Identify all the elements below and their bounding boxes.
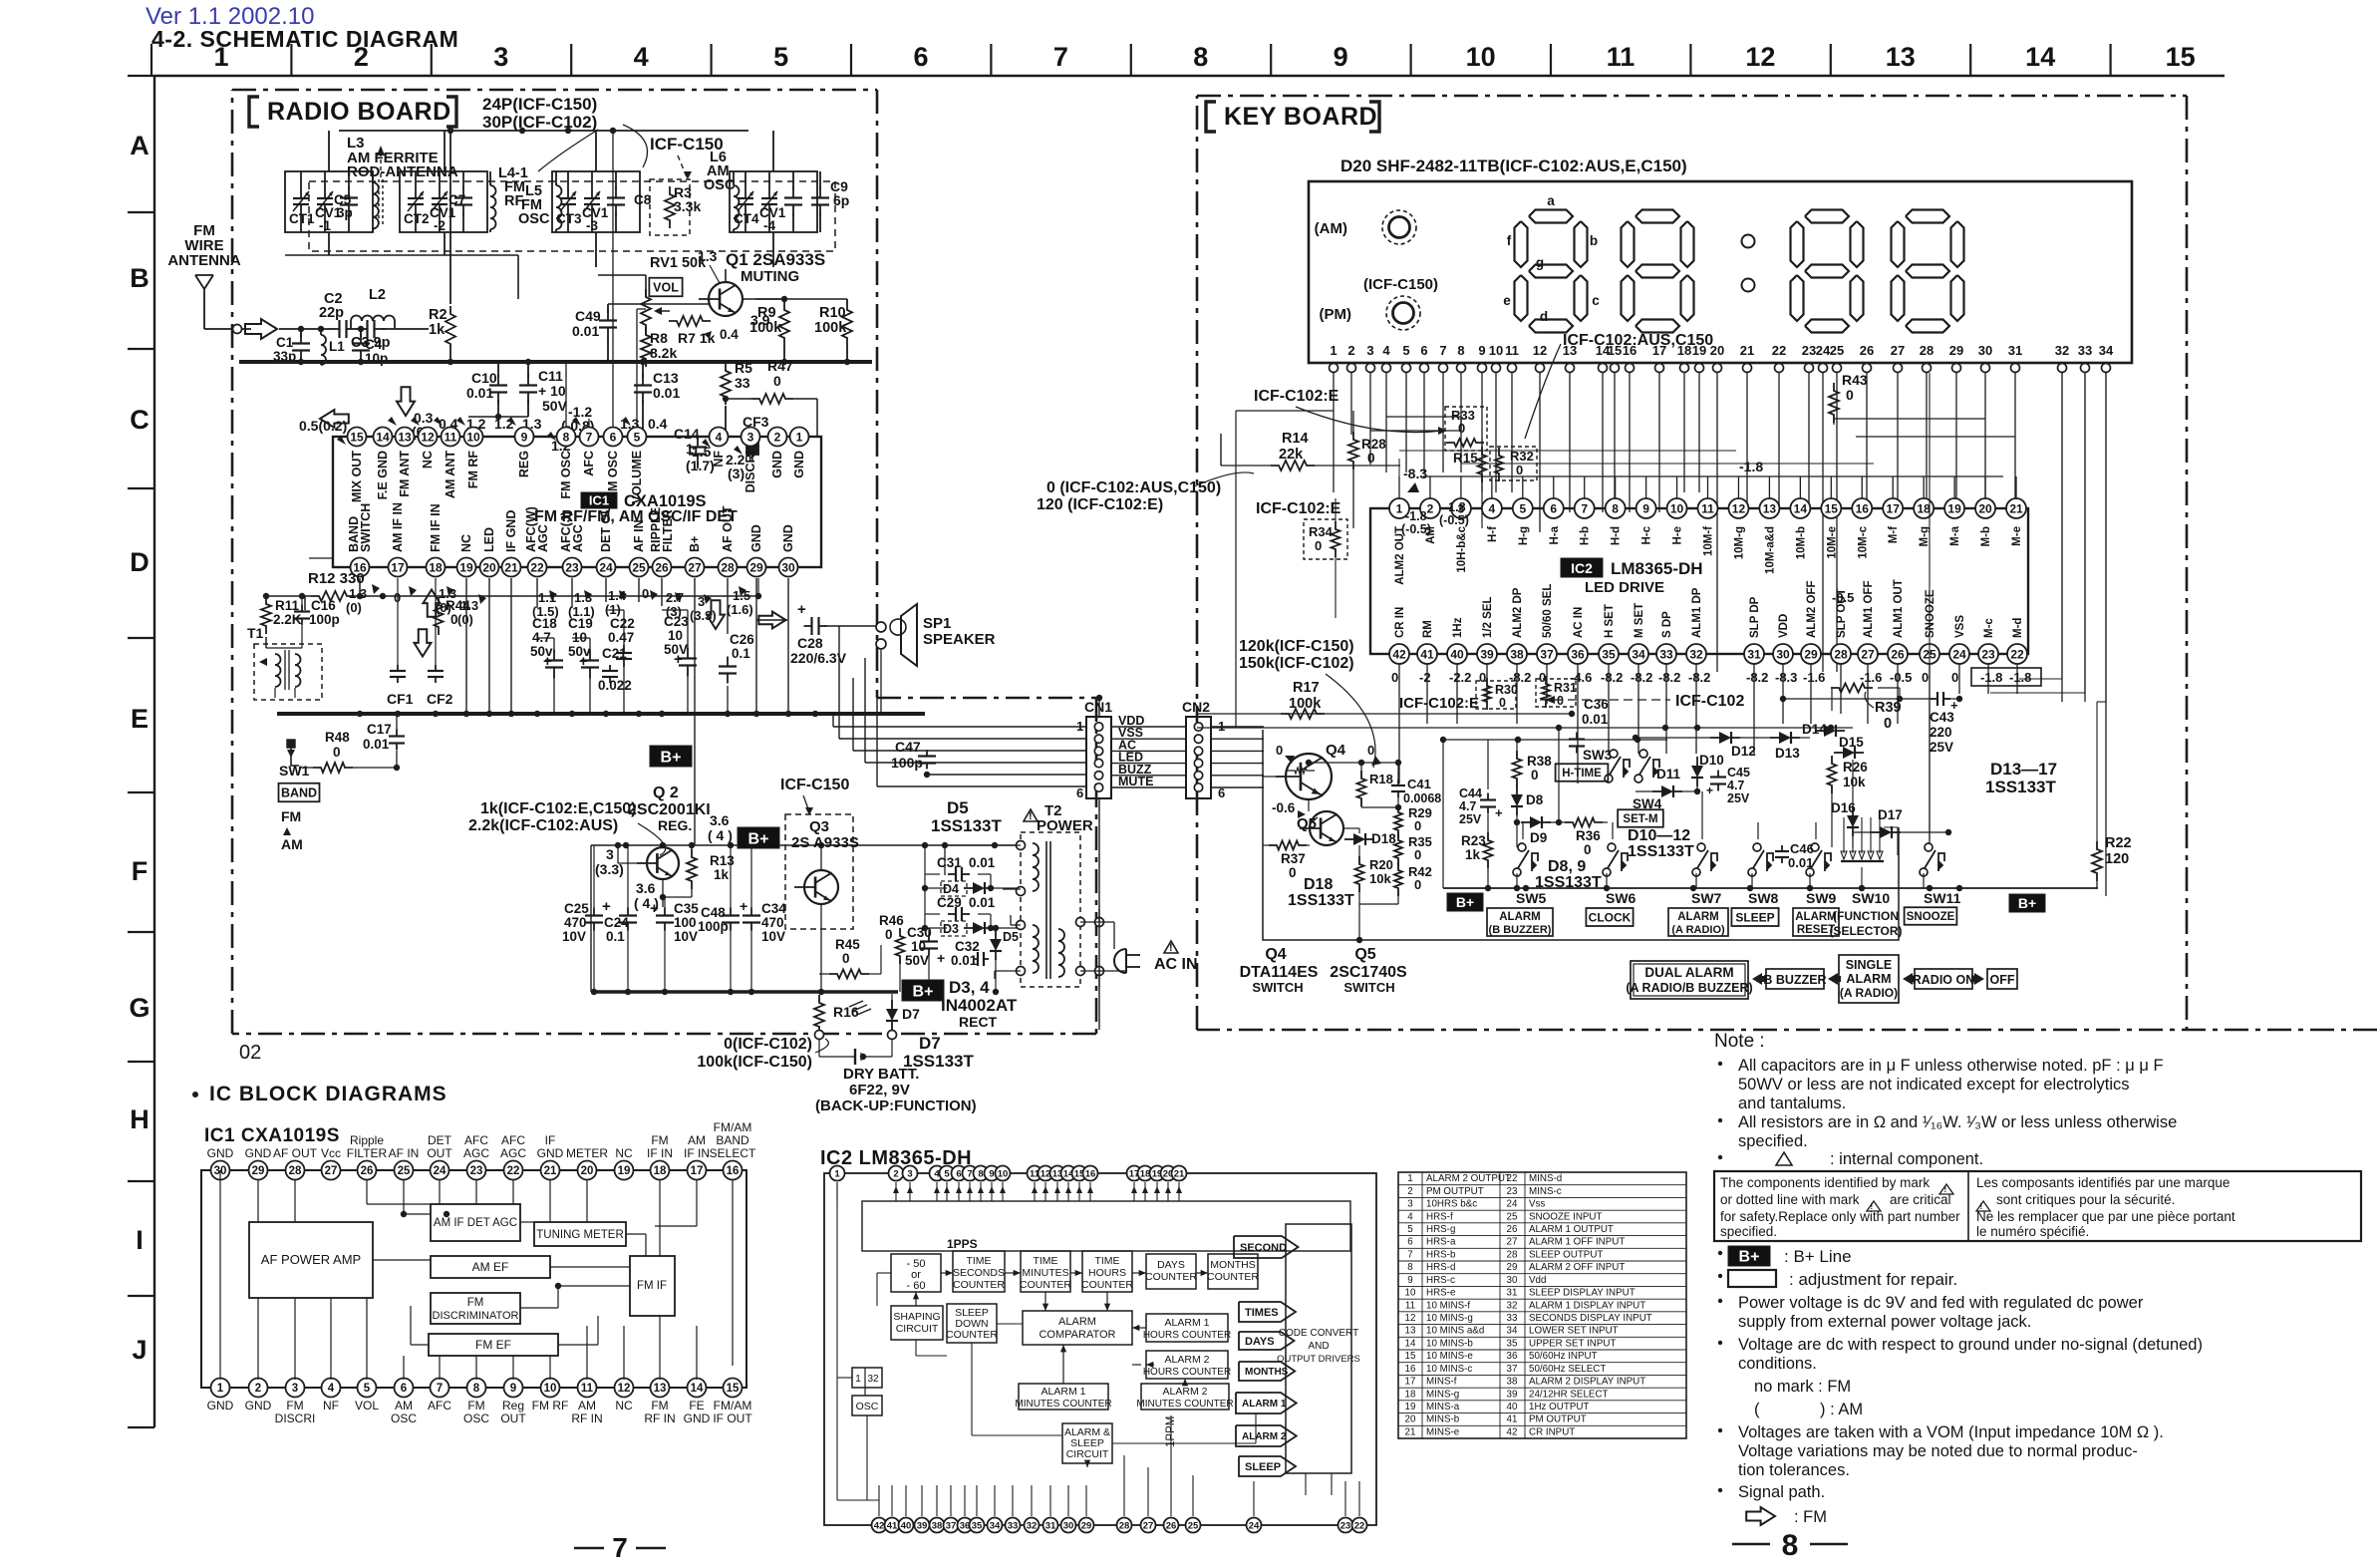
svg-text:no mark : FM: no mark : FM (1754, 1378, 1851, 1396)
svg-text:MINUTES COUNTER: MINUTES COUNTER (1136, 1399, 1233, 1410)
svg-text:e: e (1503, 293, 1511, 308)
svg-text:0: 0 (1531, 768, 1539, 783)
svg-text:C49: C49 (575, 308, 601, 324)
svg-text:50/60Hz SELECT: 50/60Hz SELECT (1529, 1364, 1606, 1375)
IC2 block pin 26 (1164, 1518, 1179, 1533)
svg-text:18: 18 (1917, 501, 1931, 515)
svg-text:L1: L1 (329, 339, 345, 354)
svg-text:470: 470 (564, 915, 587, 930)
svg-text:32: 32 (1507, 1300, 1518, 1311)
IC2 block pin 22 (1352, 1518, 1367, 1533)
svg-text:AM ANT: AM ANT (444, 451, 457, 499)
svg-text:H-c: H-c (1641, 525, 1653, 544)
svg-text:27: 27 (1861, 647, 1875, 661)
block SHAPING CIRCUIT (891, 1306, 943, 1340)
junction switch bus (1747, 885, 1753, 891)
grid column tick (1550, 44, 1552, 76)
svg-text:26: 26 (655, 560, 669, 574)
svg-text:S DP: S DP (1661, 611, 1673, 638)
svg-text:D13—17: D13—17 (1990, 760, 2057, 779)
flow arrow 3 (1903, 973, 1916, 985)
svg-text:-3: -3 (586, 218, 598, 233)
svg-text:25V: 25V (1930, 740, 1953, 755)
capacitor C9 6p (819, 187, 821, 198)
svg-text:11: 11 (1701, 501, 1714, 515)
svg-text:ALARM 2 OUTPUT: ALARM 2 OUTPUT (1426, 1173, 1511, 1184)
svg-text:FM: FM (651, 1399, 668, 1412)
svg-text:Voltages are taken with a: Voltages are taken with a VOM (Input imp… (1738, 1423, 2164, 1441)
LED display D20 box (1309, 181, 2132, 363)
svg-text:RF IN: RF IN (644, 1411, 675, 1425)
svg-text:31: 31 (1045, 1520, 1056, 1531)
svg-text:le numéro spécifié.: le numéro spécifié. (1976, 1224, 2089, 1239)
resistor R30 0 dashed (1476, 681, 1516, 709)
svg-text:M-c: M-c (1983, 618, 1995, 638)
flag TIMES (1239, 1302, 1296, 1322)
svg-text:SW11: SW11 (1924, 890, 1961, 906)
svg-text:3: 3 (292, 1383, 298, 1395)
IC2 pin 34 (1629, 644, 1648, 664)
svg-text:AM EF: AM EF (472, 1260, 509, 1274)
IC1 pin 16 (351, 558, 370, 577)
svg-text:AGC: AGC (463, 1146, 489, 1160)
svg-text:AFC: AFC (501, 1133, 525, 1147)
svg-text:2: 2 (893, 1168, 898, 1179)
svg-text:0: 0 (1414, 818, 1421, 833)
svg-text:(1.7): (1.7) (686, 458, 715, 473)
svg-text:100k: 100k (749, 320, 782, 336)
svg-text:R43: R43 (1842, 372, 1868, 388)
IC1 block outer box (201, 1170, 746, 1388)
svg-text:34: 34 (1632, 647, 1645, 661)
svg-text:C28: C28 (797, 635, 823, 651)
svg-text:D11: D11 (1656, 767, 1681, 782)
svg-text:OSC: OSC (518, 211, 550, 227)
IC2 block pin 15 (1072, 1166, 1087, 1181)
svg-text:41: 41 (1420, 647, 1434, 661)
svg-text:12: 12 (618, 1383, 631, 1395)
svg-text:MINS-g: MINS-g (1426, 1389, 1459, 1400)
junction on E bus (569, 711, 575, 717)
IC2 block pin 37 (944, 1518, 959, 1533)
antenna rod dashed arrow (380, 152, 382, 177)
svg-text:ICF-C102:E: ICF-C102:E (1399, 695, 1479, 712)
svg-text:2: 2 (1407, 1186, 1412, 1197)
leader dashed arrow (678, 156, 688, 179)
svg-text:25: 25 (1830, 343, 1844, 358)
IC1 pin 1 (790, 428, 809, 447)
block OSC (852, 1396, 882, 1415)
grid column tick (150, 44, 152, 76)
svg-text:ALARM: ALARM (1499, 911, 1541, 923)
svg-text:2SC2001KI: 2SC2001KI (628, 801, 711, 818)
svg-text:4: 4 (328, 1383, 335, 1395)
svg-text:28: 28 (1507, 1249, 1518, 1260)
IC2 block pin 2 (889, 1166, 904, 1181)
svg-text:ALM1 OFF: ALM1 OFF (1863, 581, 1875, 639)
block oscillator divider (852, 1368, 882, 1388)
wire Q1 collector right (755, 298, 784, 300)
svg-text:SW3: SW3 (1583, 748, 1613, 763)
junction on E bus (785, 711, 791, 717)
IC1 pin 11 (442, 428, 460, 447)
svg-text:5: 5 (1519, 501, 1526, 515)
svg-text:+: + (937, 950, 945, 966)
svg-text:AC IN: AC IN (1154, 956, 1198, 973)
svg-text:17: 17 (1887, 501, 1901, 515)
resistor R18 (1357, 771, 1366, 806)
svg-text:conditions.: conditions. (1738, 1355, 1817, 1373)
svg-text:25: 25 (398, 1165, 411, 1177)
KEY BOARD title (1206, 102, 1216, 132)
block ALARM SLEEP CIRCUIT (1062, 1423, 1112, 1463)
svg-text:24: 24 (1249, 1520, 1260, 1531)
svg-text:16: 16 (1085, 1168, 1096, 1179)
svg-text:R23: R23 (1461, 833, 1486, 848)
junction switch bus (1807, 885, 1813, 891)
resistor R37 0 (1269, 841, 1307, 850)
IC1 block pin 5 (358, 1379, 377, 1398)
svg-text:7: 7 (1439, 343, 1446, 358)
svg-text:1: 1 (855, 1374, 861, 1385)
IC1 pin 22 (528, 558, 547, 577)
svg-text:150k(ICF-C102): 150k(ICF-C102) (1239, 655, 1354, 672)
svg-text:1SS133T: 1SS133T (1628, 843, 1694, 860)
diode D9 (1530, 816, 1542, 828)
svg-text:-0.5: -0.5 (1890, 670, 1912, 685)
IC1 block pin 3 (286, 1379, 305, 1398)
switch SW7 (1692, 868, 1700, 876)
capacitor C45 4.7 25V (1487, 793, 1489, 800)
svg-text:H-b: H-b (1580, 526, 1592, 545)
svg-text:25V: 25V (1459, 812, 1482, 826)
svg-text:1k(ICF-C102:E,C150): 1k(ICF-C102:E,C150) (480, 800, 637, 817)
svg-text:LED DRIVE: LED DRIVE (1585, 579, 1664, 596)
svg-text:9: 9 (521, 430, 528, 444)
wire B+ tag to IC pin27 (694, 758, 696, 778)
svg-text:21: 21 (1740, 343, 1754, 358)
switch SW5 (1513, 868, 1521, 876)
svg-text:32: 32 (867, 1374, 879, 1385)
svg-text:SWITCH: SWITCH (1252, 980, 1303, 995)
resistor R8 8.2k (641, 327, 651, 367)
svg-text:29: 29 (1081, 1520, 1092, 1531)
svg-text:NF: NF (712, 451, 726, 468)
svg-text:2: 2 (774, 430, 781, 444)
svg-text:7: 7 (1581, 501, 1588, 515)
resistor R35 0 (1394, 832, 1402, 866)
diode D15 (1843, 747, 1855, 759)
junction on E bus (433, 711, 439, 717)
svg-text:ALARM: ALARM (1058, 1316, 1096, 1328)
note resistors (1718, 1118, 1722, 1122)
svg-text:15: 15 (727, 1383, 740, 1395)
resistor R33 0 dashed (1445, 407, 1487, 451)
svg-text:METER: METER (566, 1146, 608, 1160)
svg-text:27: 27 (688, 560, 702, 574)
block ALARM 2 MINUTES COUNTER (1141, 1384, 1229, 1410)
svg-text:AFC: AFC (582, 451, 596, 476)
IC2 block pin 34 (988, 1518, 1003, 1533)
wire Q3 emitter down (820, 904, 822, 992)
IC2 block pin 17 (1127, 1166, 1142, 1181)
tuning group CT1 CV1-1 C5 (285, 171, 373, 232)
svg-text:5: 5 (944, 1168, 950, 1179)
diode D17 (1880, 826, 1892, 838)
IC2 block pin 21 (1172, 1166, 1187, 1181)
svg-text:SELECT: SELECT (710, 1146, 756, 1160)
junction on B+ rail (818, 842, 824, 848)
svg-text:Q1 2SA933S: Q1 2SA933S (726, 250, 825, 269)
svg-text:2.7: 2.7 (666, 590, 684, 605)
svg-text:DTA114ES: DTA114ES (1240, 964, 1319, 981)
svg-text:AM: AM (395, 1399, 413, 1412)
svg-text:12: 12 (1405, 1313, 1416, 1324)
svg-text:2.2k(ICF-C102:AUS): 2.2k(ICF-C102:AUS) (468, 817, 618, 834)
svg-text:(A RADIO/B BUZZER): (A RADIO/B BUZZER) (1626, 981, 1752, 995)
svg-text:33: 33 (735, 375, 750, 391)
svg-text:C34: C34 (761, 901, 786, 916)
block DAYS COUNTER (1146, 1254, 1196, 1289)
svg-text:28: 28 (721, 560, 735, 574)
junction switch bus (1514, 885, 1520, 891)
svg-text:specified.: specified. (1720, 1224, 1777, 1239)
svg-text:23: 23 (565, 560, 579, 574)
svg-text:0.01: 0.01 (969, 895, 996, 910)
wire C43 row (1783, 698, 1934, 700)
svg-text:COUNTER: COUNTER (1081, 1279, 1133, 1291)
IC1 block pin 30 (211, 1161, 230, 1180)
svg-text:) : AM: ) : AM (1820, 1401, 1863, 1418)
block AM IF DET AGC (431, 1204, 520, 1241)
svg-text:22k: 22k (1279, 447, 1304, 463)
svg-text:D8: D8 (1526, 792, 1544, 807)
svg-text:TIMES: TIMES (1245, 1307, 1279, 1319)
svg-text:AND: AND (1308, 1341, 1329, 1352)
svg-text:24: 24 (434, 1165, 446, 1177)
IC1 pin 19 (457, 558, 476, 577)
resistor R13 1k (687, 849, 697, 889)
svg-text:ALM1 OUT: ALM1 OUT (1893, 579, 1905, 638)
svg-text:0: 0 (642, 586, 649, 601)
IC1 pin 23 (563, 558, 582, 577)
flow arrow 1 (1752, 973, 1767, 985)
flag DAYS (1239, 1332, 1295, 1350)
svg-text:HRS-c: HRS-c (1426, 1275, 1455, 1286)
capacitor C1 33p (300, 333, 302, 344)
svg-text:6: 6 (401, 1383, 407, 1395)
IC2 pin 38 (1507, 644, 1527, 664)
block TIME HOURS COUNTER (1082, 1251, 1132, 1292)
svg-text:24/12HR SELECT: 24/12HR SELECT (1529, 1389, 1609, 1400)
IC2 block pin 3 (903, 1166, 918, 1181)
IC1 block pin 12 (615, 1379, 634, 1398)
svg-text:470: 470 (761, 915, 784, 930)
svg-text:20: 20 (581, 1165, 594, 1177)
svg-text:HRS-a: HRS-a (1426, 1237, 1456, 1248)
grid column tick (290, 44, 292, 76)
svg-text:18: 18 (429, 560, 443, 574)
svg-text:6: 6 (1420, 343, 1427, 358)
svg-text:10M-g: 10M-g (1733, 526, 1745, 559)
horizontal link wires under display (1386, 416, 1461, 418)
IC1 block pin 29 (249, 1161, 268, 1180)
switch bus wire (1443, 887, 2098, 889)
IC1 pin 24 (597, 558, 616, 577)
svg-text:All resistors are in Ω an: All resistors are in Ω and ¹⁄₁₆W. ¹⁄₃W o… (1738, 1113, 2177, 1131)
svg-text:0: 0 (1276, 743, 1283, 758)
svg-text:IC BLOCK DIAGRAMS: IC BLOCK DIAGRAMS (209, 1083, 447, 1105)
svg-text:0: 0 (1584, 842, 1592, 857)
IC2 pin 14 (1790, 498, 1810, 518)
T2 label with safety mark (1024, 809, 1038, 821)
svg-text:100p: 100p (698, 919, 729, 934)
svg-text:-8.2: -8.2 (1631, 670, 1652, 685)
svg-text:DISCRI: DISCRI (275, 1411, 316, 1425)
svg-text:Q3: Q3 (809, 818, 829, 835)
svg-text:1k: 1k (1465, 847, 1481, 862)
svg-text:DUAL ALARM: DUAL ALARM (1644, 965, 1733, 980)
svg-text:R47: R47 (767, 358, 793, 374)
svg-text:6: 6 (610, 430, 617, 444)
svg-text:SNOOZE INPUT: SNOOZE INPUT (1529, 1211, 1602, 1222)
IC1 pin 15 (348, 428, 367, 447)
top grid ruler line (154, 75, 2225, 77)
IC1 block pin 16 (724, 1161, 743, 1180)
junction switch bus (1690, 885, 1696, 891)
switch SW9 label box ALARM RESET (1793, 908, 1839, 936)
svg-text:0.01: 0.01 (951, 953, 978, 968)
svg-text:+: + (543, 653, 552, 670)
svg-text:27: 27 (325, 1165, 338, 1177)
svg-text:27: 27 (1891, 343, 1905, 358)
svg-text:HOURS COUNTER: HOURS COUNTER (1143, 1367, 1231, 1378)
svg-text:R16: R16 (833, 1004, 859, 1020)
IC2 block pin 19 (1150, 1166, 1165, 1181)
svg-text:-2: -2 (1419, 670, 1431, 685)
svg-text:B+: B+ (688, 536, 702, 552)
svg-text:ALARM 2: ALARM 2 (1163, 1386, 1208, 1398)
svg-text:C46: C46 (1790, 841, 1814, 856)
IC2 pin 20 (1975, 498, 1995, 518)
svg-text:8: 8 (1782, 1529, 1799, 1562)
svg-text:10: 10 (668, 628, 683, 643)
svg-text:25: 25 (1507, 1211, 1518, 1222)
IC2 pin 24 (1949, 644, 1969, 664)
svg-text:Voltage variations may be: Voltage variations may be noted due to n… (1738, 1442, 2138, 1460)
svg-text:DET: DET (428, 1133, 452, 1147)
svg-text:M-g: M-g (1919, 526, 1931, 546)
svg-text:6: 6 (956, 1168, 961, 1179)
wires T2 primary (945, 844, 1021, 846)
svg-text:M-a: M-a (1949, 525, 1961, 545)
IC2 block pin 4 (930, 1166, 945, 1181)
svg-text:2SC1740S: 2SC1740S (1330, 964, 1407, 981)
svg-text:35: 35 (1602, 647, 1616, 661)
IC2 pin 29 (1801, 644, 1821, 664)
svg-text:MUTING: MUTING (741, 268, 799, 285)
svg-text:CR IN: CR IN (1394, 607, 1406, 638)
IC2 block pin 33 (1006, 1518, 1021, 1533)
svg-text:M-d: M-d (2012, 618, 2024, 638)
svg-text:CIRCUIT: CIRCUIT (896, 1323, 939, 1335)
IC2 pin 32 (1686, 644, 1706, 664)
svg-text:MINS-a: MINS-a (1426, 1402, 1460, 1412)
svg-text:31: 31 (1747, 647, 1761, 661)
svg-text:GND: GND (781, 524, 795, 552)
wires diode bridge (925, 887, 947, 889)
svg-text:8: 8 (473, 1383, 480, 1395)
svg-text:MINS-d: MINS-d (1529, 1173, 1562, 1184)
svg-text:C19: C19 (568, 616, 593, 631)
grid row tick (128, 1061, 154, 1063)
svg-text:8: 8 (563, 430, 570, 444)
IC2 block pin 35 (970, 1518, 985, 1533)
IC1 pin 13 (396, 428, 415, 447)
wires CN2 into keyboard (1211, 726, 1264, 728)
svg-text:24P(ICF-C150): 24P(ICF-C150) (482, 95, 597, 114)
svg-text:Vss: Vss (1529, 1199, 1545, 1210)
svg-text:!: ! (1169, 942, 1173, 954)
IC2 block pin 32 (1025, 1518, 1040, 1533)
svg-text:C41: C41 (1407, 777, 1431, 791)
svg-text:4-2. SCHEMATIC DIAGRAM: 4-2. SCHEMATIC DIAGRAM (151, 26, 458, 52)
svg-text:OUT: OUT (500, 1411, 526, 1425)
switch SW5 label box ALARM B BUZZER (1487, 908, 1553, 936)
svg-text:50V: 50V (542, 398, 568, 414)
svg-text:41: 41 (1507, 1414, 1518, 1425)
svg-text:0.4: 0.4 (648, 416, 668, 432)
svg-text:10M-c: 10M-c (1857, 525, 1869, 558)
hollow arrow up below pin18 (424, 590, 441, 617)
E row bus thick wire (277, 712, 925, 716)
svg-text:10: 10 (1670, 501, 1684, 515)
block ALARM 1 HOURS COUNTER (1146, 1314, 1228, 1342)
svg-text:33: 33 (1507, 1313, 1518, 1324)
svg-text:GND: GND (207, 1399, 234, 1412)
svg-text:0.022: 0.022 (598, 678, 632, 693)
svg-text:28: 28 (1834, 647, 1848, 661)
svg-text:C26: C26 (730, 632, 754, 647)
svg-text:7: 7 (612, 1532, 628, 1563)
diode D10 (1691, 766, 1703, 778)
svg-text:10 MINS-e: 10 MINS-e (1426, 1351, 1473, 1362)
svg-text:SPEAKER: SPEAKER (923, 631, 996, 648)
IC1 block pin 6 (395, 1379, 414, 1398)
svg-text:0.1: 0.1 (732, 646, 750, 661)
svg-text:1: 1 (1330, 343, 1337, 358)
IC2 block pin 7 (963, 1166, 978, 1181)
grid row tick (128, 1426, 154, 1428)
svg-text:0 (ICF-C102:AUS,C150): 0 (ICF-C102:AUS,C150) (1046, 479, 1221, 496)
IC2 pin 1 (1389, 498, 1409, 518)
svg-text:CT4: CT4 (734, 211, 759, 226)
junction on B+ rail (689, 842, 695, 848)
svg-text:and tantalums.: and tantalums. (1738, 1095, 1846, 1112)
switch SW6 label box CLOCK (1586, 908, 1633, 926)
diode D5 vertical (990, 939, 1002, 951)
svg-text:38: 38 (1510, 647, 1524, 661)
svg-text:b: b (1590, 233, 1598, 248)
svg-text:2: 2 (255, 1383, 261, 1395)
svg-text:R39: R39 (1875, 700, 1902, 716)
svg-text:FM: FM (281, 808, 301, 824)
junction on top bus (565, 128, 571, 134)
svg-text:or dotted line with mark: or dotted line with mark (1720, 1192, 1860, 1207)
svg-text:35: 35 (972, 1520, 983, 1531)
transistor Q3 2SA933S dashed box (785, 814, 853, 929)
svg-text:(FUNCTION: (FUNCTION (1833, 909, 1899, 923)
